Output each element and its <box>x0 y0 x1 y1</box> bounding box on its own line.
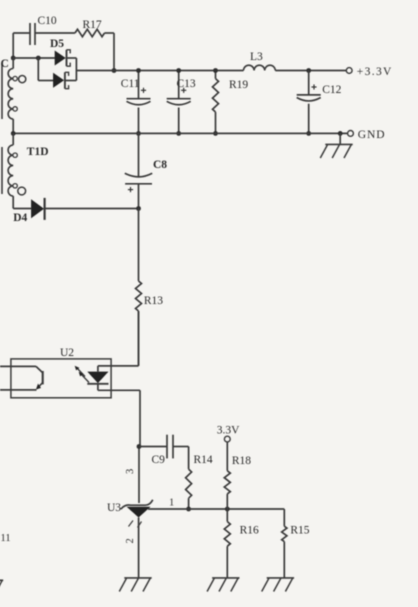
resistor R16 <box>224 509 259 578</box>
wire: D5 cathode join <box>75 58 77 81</box>
svg-text:D4: D4 <box>13 212 27 224</box>
wire: junction to C9 <box>139 446 167 448</box>
resistor R18 <box>224 442 251 509</box>
inductor L3 <box>244 51 276 71</box>
diode D5 top element <box>55 50 77 66</box>
wire: T1C junction to D5 anodes <box>13 57 56 59</box>
node: C9 branch junction <box>137 444 142 449</box>
terminal 3.3V <box>217 424 240 442</box>
capacitor C11 <box>121 71 151 134</box>
svg-text:GND: GND <box>358 129 386 141</box>
wire: GND rail <box>13 132 347 134</box>
wire: C10 to R17 <box>35 32 75 34</box>
node: C8 bottom / D4 line junction <box>136 206 141 211</box>
wire: D4 cathode to R13 column <box>45 208 139 210</box>
node: C12 bottom <box>306 131 311 136</box>
wire: C9 to R14 <box>173 447 189 470</box>
resistor R17 <box>75 19 105 37</box>
wire: U3 ref line <box>148 508 284 510</box>
svg-text:+3.3V: +3.3V <box>357 66 393 78</box>
ground (R15) <box>262 578 294 592</box>
diode D5 bottom element <box>53 72 76 88</box>
resistor R13 <box>136 209 164 366</box>
svg-text:C10: C10 <box>38 15 57 27</box>
node: C12 tap on rail <box>306 68 311 73</box>
svg-text:R13: R13 <box>144 295 163 307</box>
wire: R17 down to +3.3V rail <box>105 33 115 71</box>
pin 2 label <box>125 538 136 543</box>
node: D5 parallel branch split <box>36 56 41 61</box>
node: R19 bottom <box>213 131 218 136</box>
node: GND symbol tap <box>338 131 343 136</box>
terminal GND <box>348 129 386 141</box>
wire: +3.3V rail <box>76 70 243 72</box>
wire: U3 anode to ground <box>138 518 140 578</box>
svg-text:R18: R18 <box>232 455 251 467</box>
pin 3 label <box>125 469 136 474</box>
transformer winding T1D <box>8 133 48 208</box>
svg-text:R15: R15 <box>290 525 309 537</box>
svg-text:U2: U2 <box>60 347 74 359</box>
svg-text:C: C <box>1 58 9 70</box>
pin 1 label <box>169 498 174 509</box>
svg-text:R19: R19 <box>229 79 248 91</box>
LED U2 emitter diode <box>87 366 140 390</box>
ground (top right) <box>320 133 352 158</box>
wire: R13 into U2 LED anode <box>138 311 140 366</box>
svg-text:11: 11 <box>1 533 11 544</box>
node: R14 bottom on ref line <box>186 507 191 512</box>
resistor R14 <box>186 454 213 509</box>
node: R19 top <box>213 68 218 73</box>
node: C11 bottom <box>136 131 141 136</box>
svg-text:C12: C12 <box>322 84 341 96</box>
capacitor C9 <box>152 435 174 466</box>
shunt regulator U3 (TL431) <box>107 500 153 528</box>
node: rail junction at R17 drop <box>112 68 117 73</box>
stray label 11 (cut off at edge) <box>1 533 11 544</box>
wire: D5 left parallel branch <box>38 58 54 81</box>
resistor R19 <box>213 71 249 134</box>
svg-text:2: 2 <box>125 538 136 543</box>
capacitor C8 <box>125 133 168 208</box>
capacitor C12 <box>297 71 342 134</box>
capacitor C13 <box>167 71 196 134</box>
svg-text:C11: C11 <box>121 78 140 90</box>
diode D4 <box>13 198 44 224</box>
transformer core T1 <box>1 64 3 194</box>
capacitor C10 <box>30 15 57 45</box>
resistor R15 <box>282 509 310 578</box>
svg-text:R17: R17 <box>83 19 102 31</box>
svg-text:R16: R16 <box>240 525 259 537</box>
wire: top-left C10 feed <box>13 33 30 58</box>
svg-text:C9: C9 <box>152 454 166 466</box>
svg-text:R14: R14 <box>194 454 213 466</box>
ground (R16) <box>207 578 239 592</box>
transformer winding T1C <box>1 58 26 133</box>
node: T1C top junction <box>11 56 16 61</box>
svg-text:C8: C8 <box>153 159 167 171</box>
node: C13 bottom <box>176 131 181 136</box>
svg-text:3.3V: 3.3V <box>217 424 240 436</box>
transistor U2 phototransistor <box>0 366 43 390</box>
node: C13 top <box>176 68 181 73</box>
node: GND rail left junction <box>11 131 16 136</box>
svg-text:3: 3 <box>125 469 136 474</box>
svg-text:1: 1 <box>169 498 174 509</box>
node: C11 top <box>136 68 141 73</box>
diode D5 (dual schottky) label <box>50 38 64 50</box>
svg-text:L3: L3 <box>250 51 263 63</box>
node: divider junction <box>225 507 230 512</box>
svg-text:T1D: T1D <box>27 146 49 158</box>
svg-text:D5: D5 <box>50 38 64 50</box>
wire: T1D to D4 <box>13 208 31 210</box>
terminal +3.3V <box>346 66 392 78</box>
svg-text:U3: U3 <box>107 502 121 514</box>
wire: U2 LED cathode down to U3 <box>139 390 140 503</box>
wire: L3 to +3.3V terminal <box>275 70 346 72</box>
ground (U3 anode) <box>119 578 151 592</box>
optocoupler U2 box <box>11 347 111 398</box>
svg-text:C13: C13 <box>177 78 196 90</box>
LED emission arrows <box>75 366 89 383</box>
ground (cut off at left edge) <box>0 580 3 592</box>
